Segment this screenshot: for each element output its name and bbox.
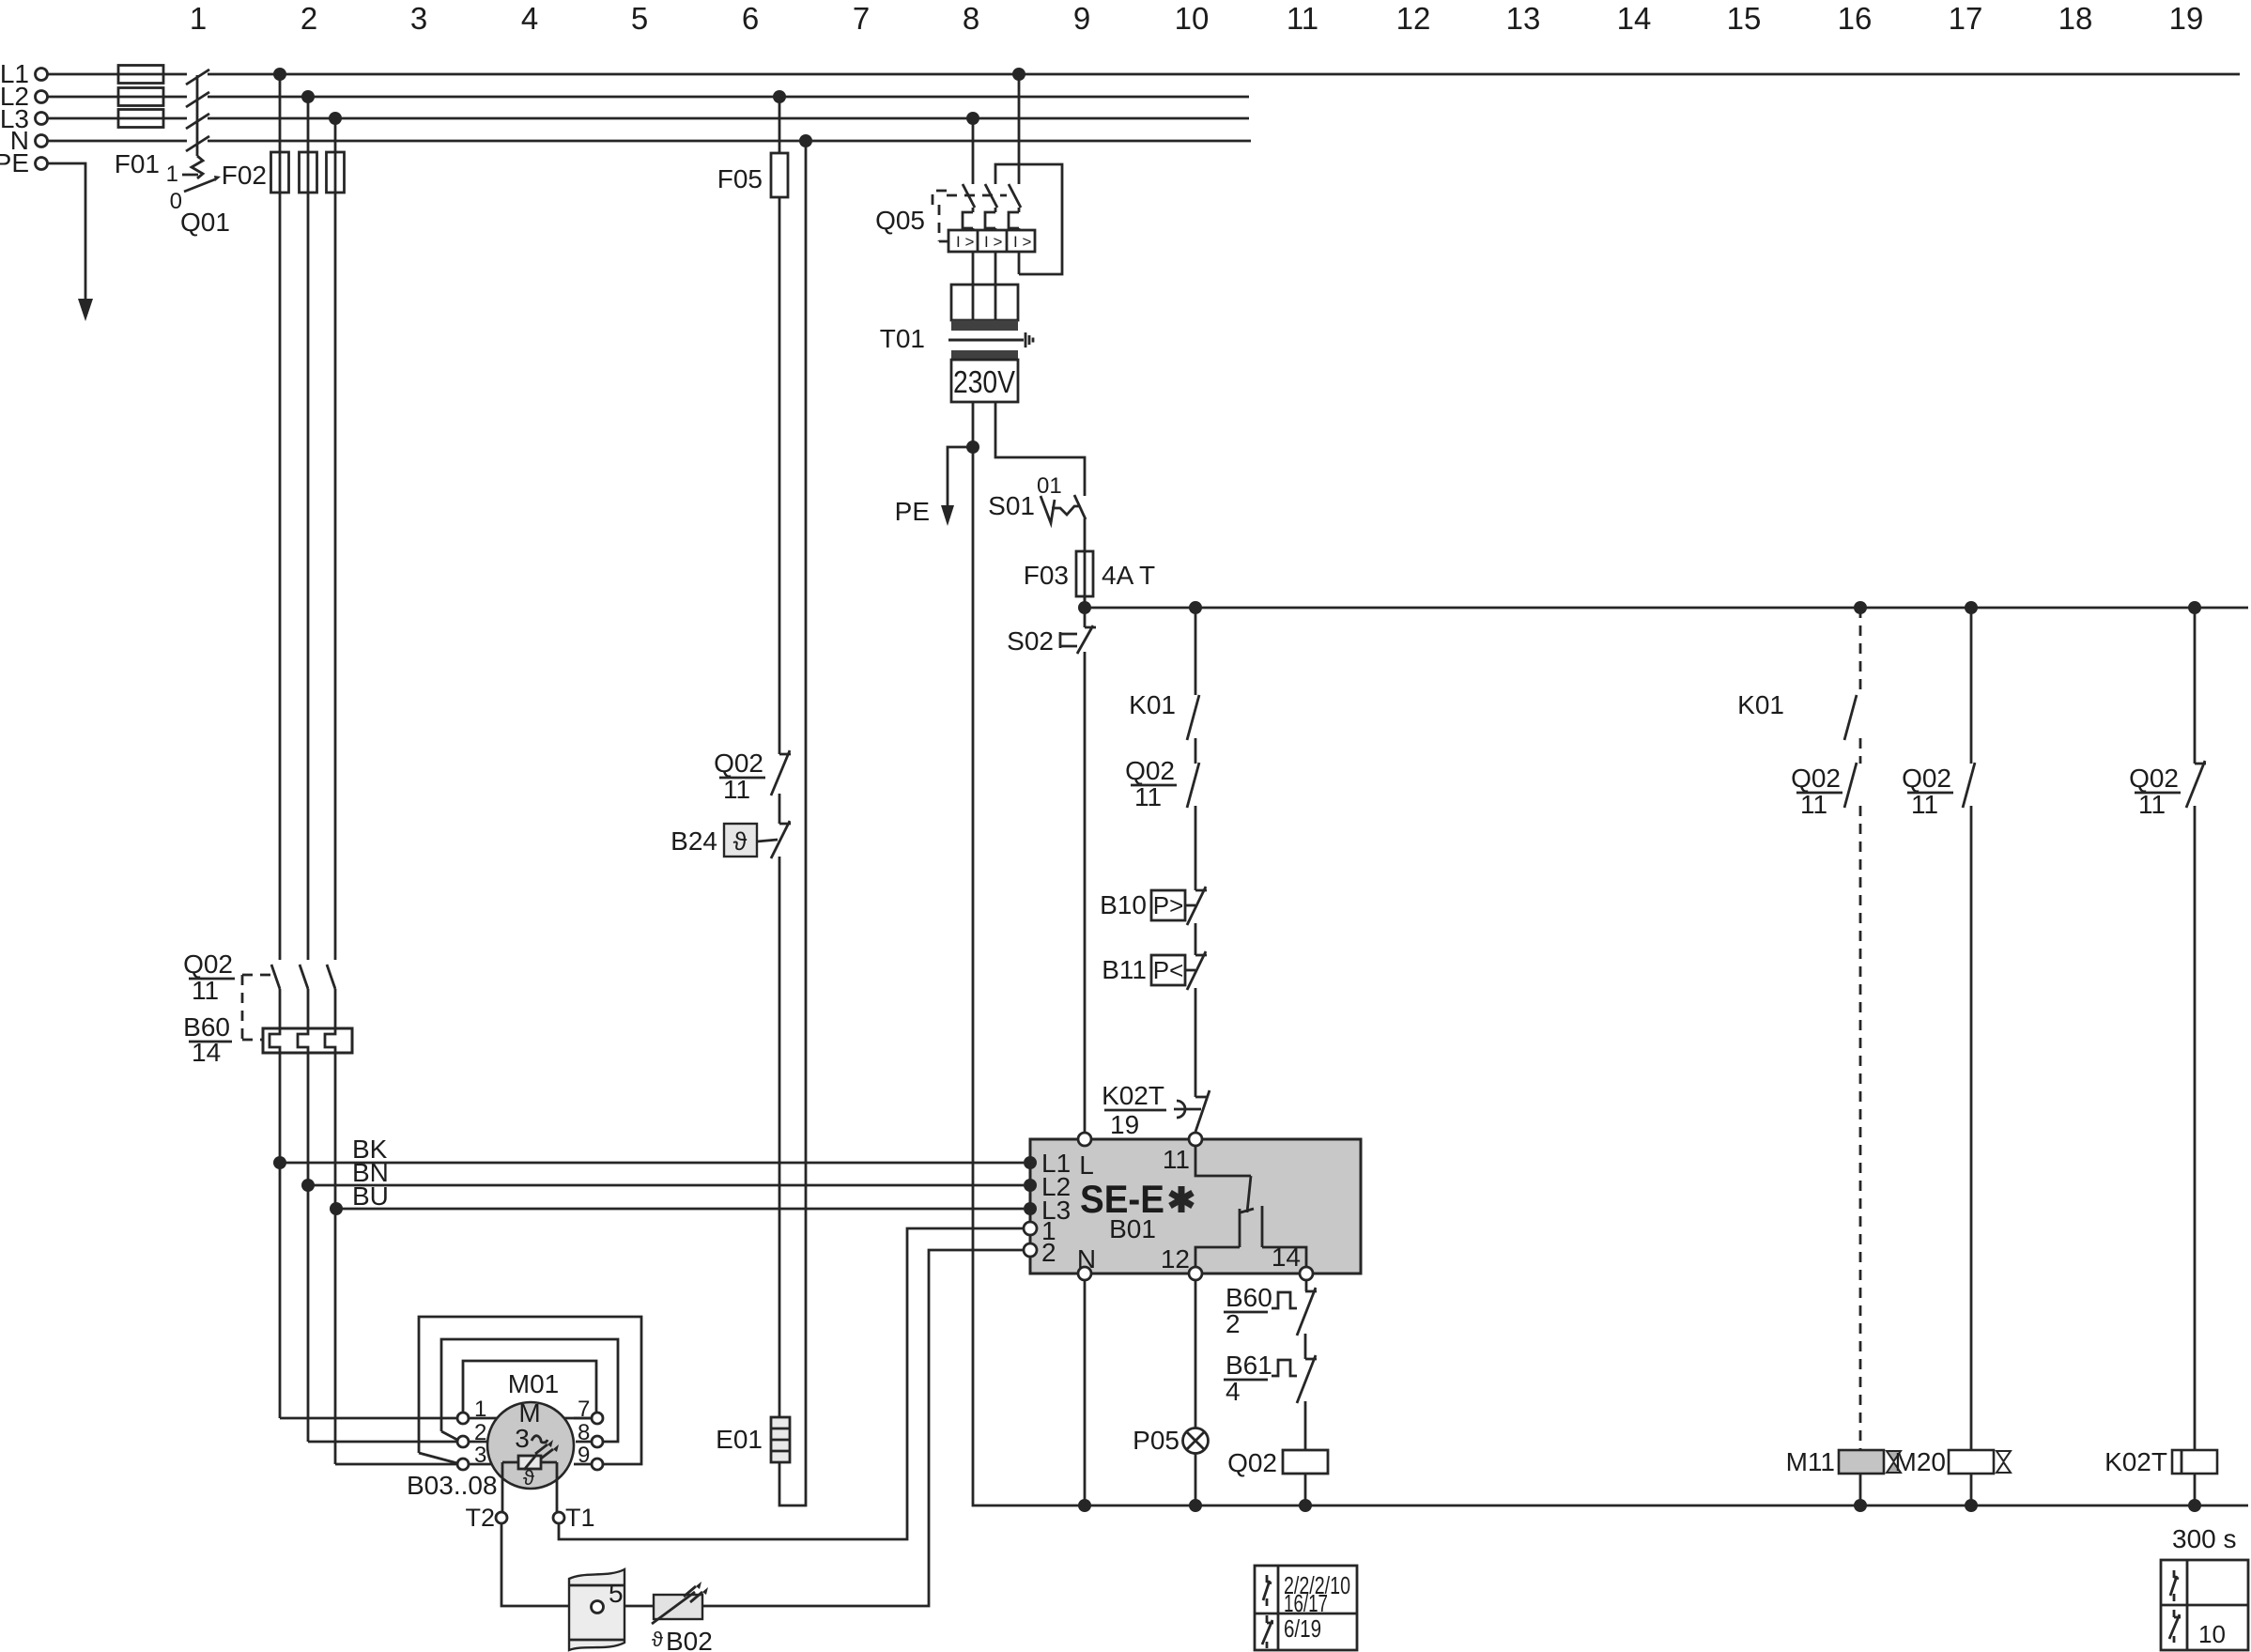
svg-text:Q02: Q02	[1791, 764, 1841, 793]
svg-text:B01: B01	[1109, 1214, 1156, 1243]
svg-text:300 s: 300 s	[2172, 1524, 2237, 1553]
svg-text:2: 2	[1041, 1238, 1056, 1267]
svg-text:13: 13	[1506, 1, 1541, 36]
svg-text:F03: F03	[1024, 561, 1069, 590]
svg-text:6/19: 6/19	[1284, 1614, 1321, 1643]
svg-text:P>: P>	[1153, 891, 1184, 919]
svg-text:ϑ: ϑ	[733, 827, 748, 856]
svg-text:11: 11	[1163, 1145, 1190, 1174]
svg-text:5: 5	[631, 1, 648, 36]
svg-text:10: 10	[1175, 1, 1210, 36]
svg-text:2: 2	[301, 1, 317, 36]
svg-text:8: 8	[578, 1420, 590, 1445]
svg-text:P05: P05	[1133, 1426, 1179, 1455]
svg-text:4: 4	[521, 1, 538, 36]
svg-text:9: 9	[1073, 1, 1090, 36]
svg-text:I >: I >	[984, 233, 1002, 251]
svg-text:Q02: Q02	[1227, 1448, 1277, 1477]
svg-text:T1: T1	[565, 1504, 595, 1532]
svg-text:B10: B10	[1100, 890, 1147, 919]
svg-text:3: 3	[410, 1, 427, 36]
svg-text:5: 5	[609, 1579, 624, 1608]
svg-text:K02T: K02T	[2105, 1447, 2167, 1476]
svg-text:B03..08: B03..08	[407, 1471, 498, 1500]
svg-text:11: 11	[192, 976, 219, 1005]
svg-text:1: 1	[166, 162, 178, 187]
svg-text:7: 7	[578, 1397, 590, 1422]
svg-text:F01: F01	[115, 149, 160, 178]
svg-text:K01: K01	[1737, 690, 1784, 719]
svg-text:11: 11	[1287, 1, 1318, 36]
svg-text:B11: B11	[1102, 955, 1147, 984]
svg-text:3: 3	[474, 1443, 486, 1468]
svg-text:I >: I >	[956, 233, 974, 251]
svg-text:F05: F05	[717, 164, 763, 193]
svg-text:1: 1	[474, 1397, 486, 1422]
svg-text:1: 1	[190, 1, 207, 36]
svg-text:14: 14	[192, 1038, 221, 1067]
svg-text:BU: BU	[352, 1181, 389, 1211]
svg-text:2: 2	[474, 1420, 486, 1445]
svg-text:3: 3	[515, 1424, 530, 1453]
svg-text:L: L	[1079, 1150, 1094, 1180]
svg-text:Q05: Q05	[875, 206, 925, 235]
svg-text:K01: K01	[1129, 690, 1176, 719]
svg-text:7: 7	[853, 1, 870, 36]
svg-text:I >: I >	[1013, 233, 1031, 251]
svg-text:K02T: K02T	[1102, 1081, 1164, 1110]
svg-text:9: 9	[578, 1443, 590, 1468]
svg-text:2: 2	[1226, 1309, 1241, 1338]
svg-text:11: 11	[2138, 790, 2166, 819]
svg-text:19: 19	[2169, 1, 2204, 36]
svg-text:M01: M01	[508, 1369, 559, 1398]
svg-text:M20: M20	[1895, 1447, 1946, 1476]
svg-text:Q02: Q02	[1902, 764, 1951, 793]
svg-text:E01: E01	[716, 1425, 763, 1454]
svg-text:12: 12	[1161, 1244, 1190, 1274]
svg-text:ϑ: ϑ	[652, 1628, 663, 1651]
svg-text:Q01: Q01	[180, 208, 230, 237]
svg-text:11: 11	[1911, 790, 1938, 819]
svg-text:F02: F02	[222, 161, 267, 190]
svg-text:15: 15	[1727, 1, 1762, 36]
svg-text:230V: 230V	[953, 364, 1015, 399]
svg-text:T2: T2	[465, 1504, 495, 1532]
svg-text:PE: PE	[0, 148, 29, 178]
svg-text:17: 17	[1949, 1, 1983, 36]
svg-text:18: 18	[2058, 1, 2093, 36]
svg-text:Q02: Q02	[714, 749, 763, 778]
svg-text:6: 6	[742, 1, 759, 36]
svg-text:Q02: Q02	[183, 950, 233, 979]
svg-text:01: 01	[1037, 473, 1062, 499]
svg-text:N: N	[1077, 1244, 1096, 1274]
svg-text:Q02: Q02	[1125, 756, 1175, 785]
svg-text:S02: S02	[1007, 626, 1054, 656]
svg-text:4A T: 4A T	[1102, 561, 1155, 590]
svg-text:14: 14	[1617, 1, 1652, 36]
svg-text:14: 14	[1272, 1243, 1301, 1272]
svg-text:B24: B24	[671, 826, 717, 856]
svg-text:B60: B60	[1226, 1283, 1272, 1312]
svg-text:11: 11	[723, 775, 750, 804]
svg-text:Q02: Q02	[2129, 764, 2179, 793]
svg-text:12: 12	[1396, 1, 1431, 36]
svg-text:16: 16	[1838, 1, 1873, 36]
svg-text:M11: M11	[1786, 1447, 1835, 1476]
svg-text:T01: T01	[880, 324, 925, 353]
svg-text:ϑ: ϑ	[523, 1466, 534, 1490]
svg-text:11: 11	[1800, 790, 1827, 819]
svg-text:B02: B02	[666, 1627, 713, 1652]
svg-text:S01: S01	[988, 491, 1035, 520]
svg-text:B61: B61	[1226, 1351, 1272, 1380]
svg-text:16/17: 16/17	[1284, 1589, 1328, 1617]
svg-text:19: 19	[1110, 1110, 1139, 1139]
svg-text:4: 4	[1226, 1377, 1241, 1406]
svg-text:11: 11	[1134, 782, 1162, 811]
svg-text:10: 10	[2198, 1620, 2226, 1648]
svg-text:P<: P<	[1153, 956, 1184, 984]
svg-text:PE: PE	[895, 497, 930, 526]
svg-text:8: 8	[963, 1, 979, 36]
